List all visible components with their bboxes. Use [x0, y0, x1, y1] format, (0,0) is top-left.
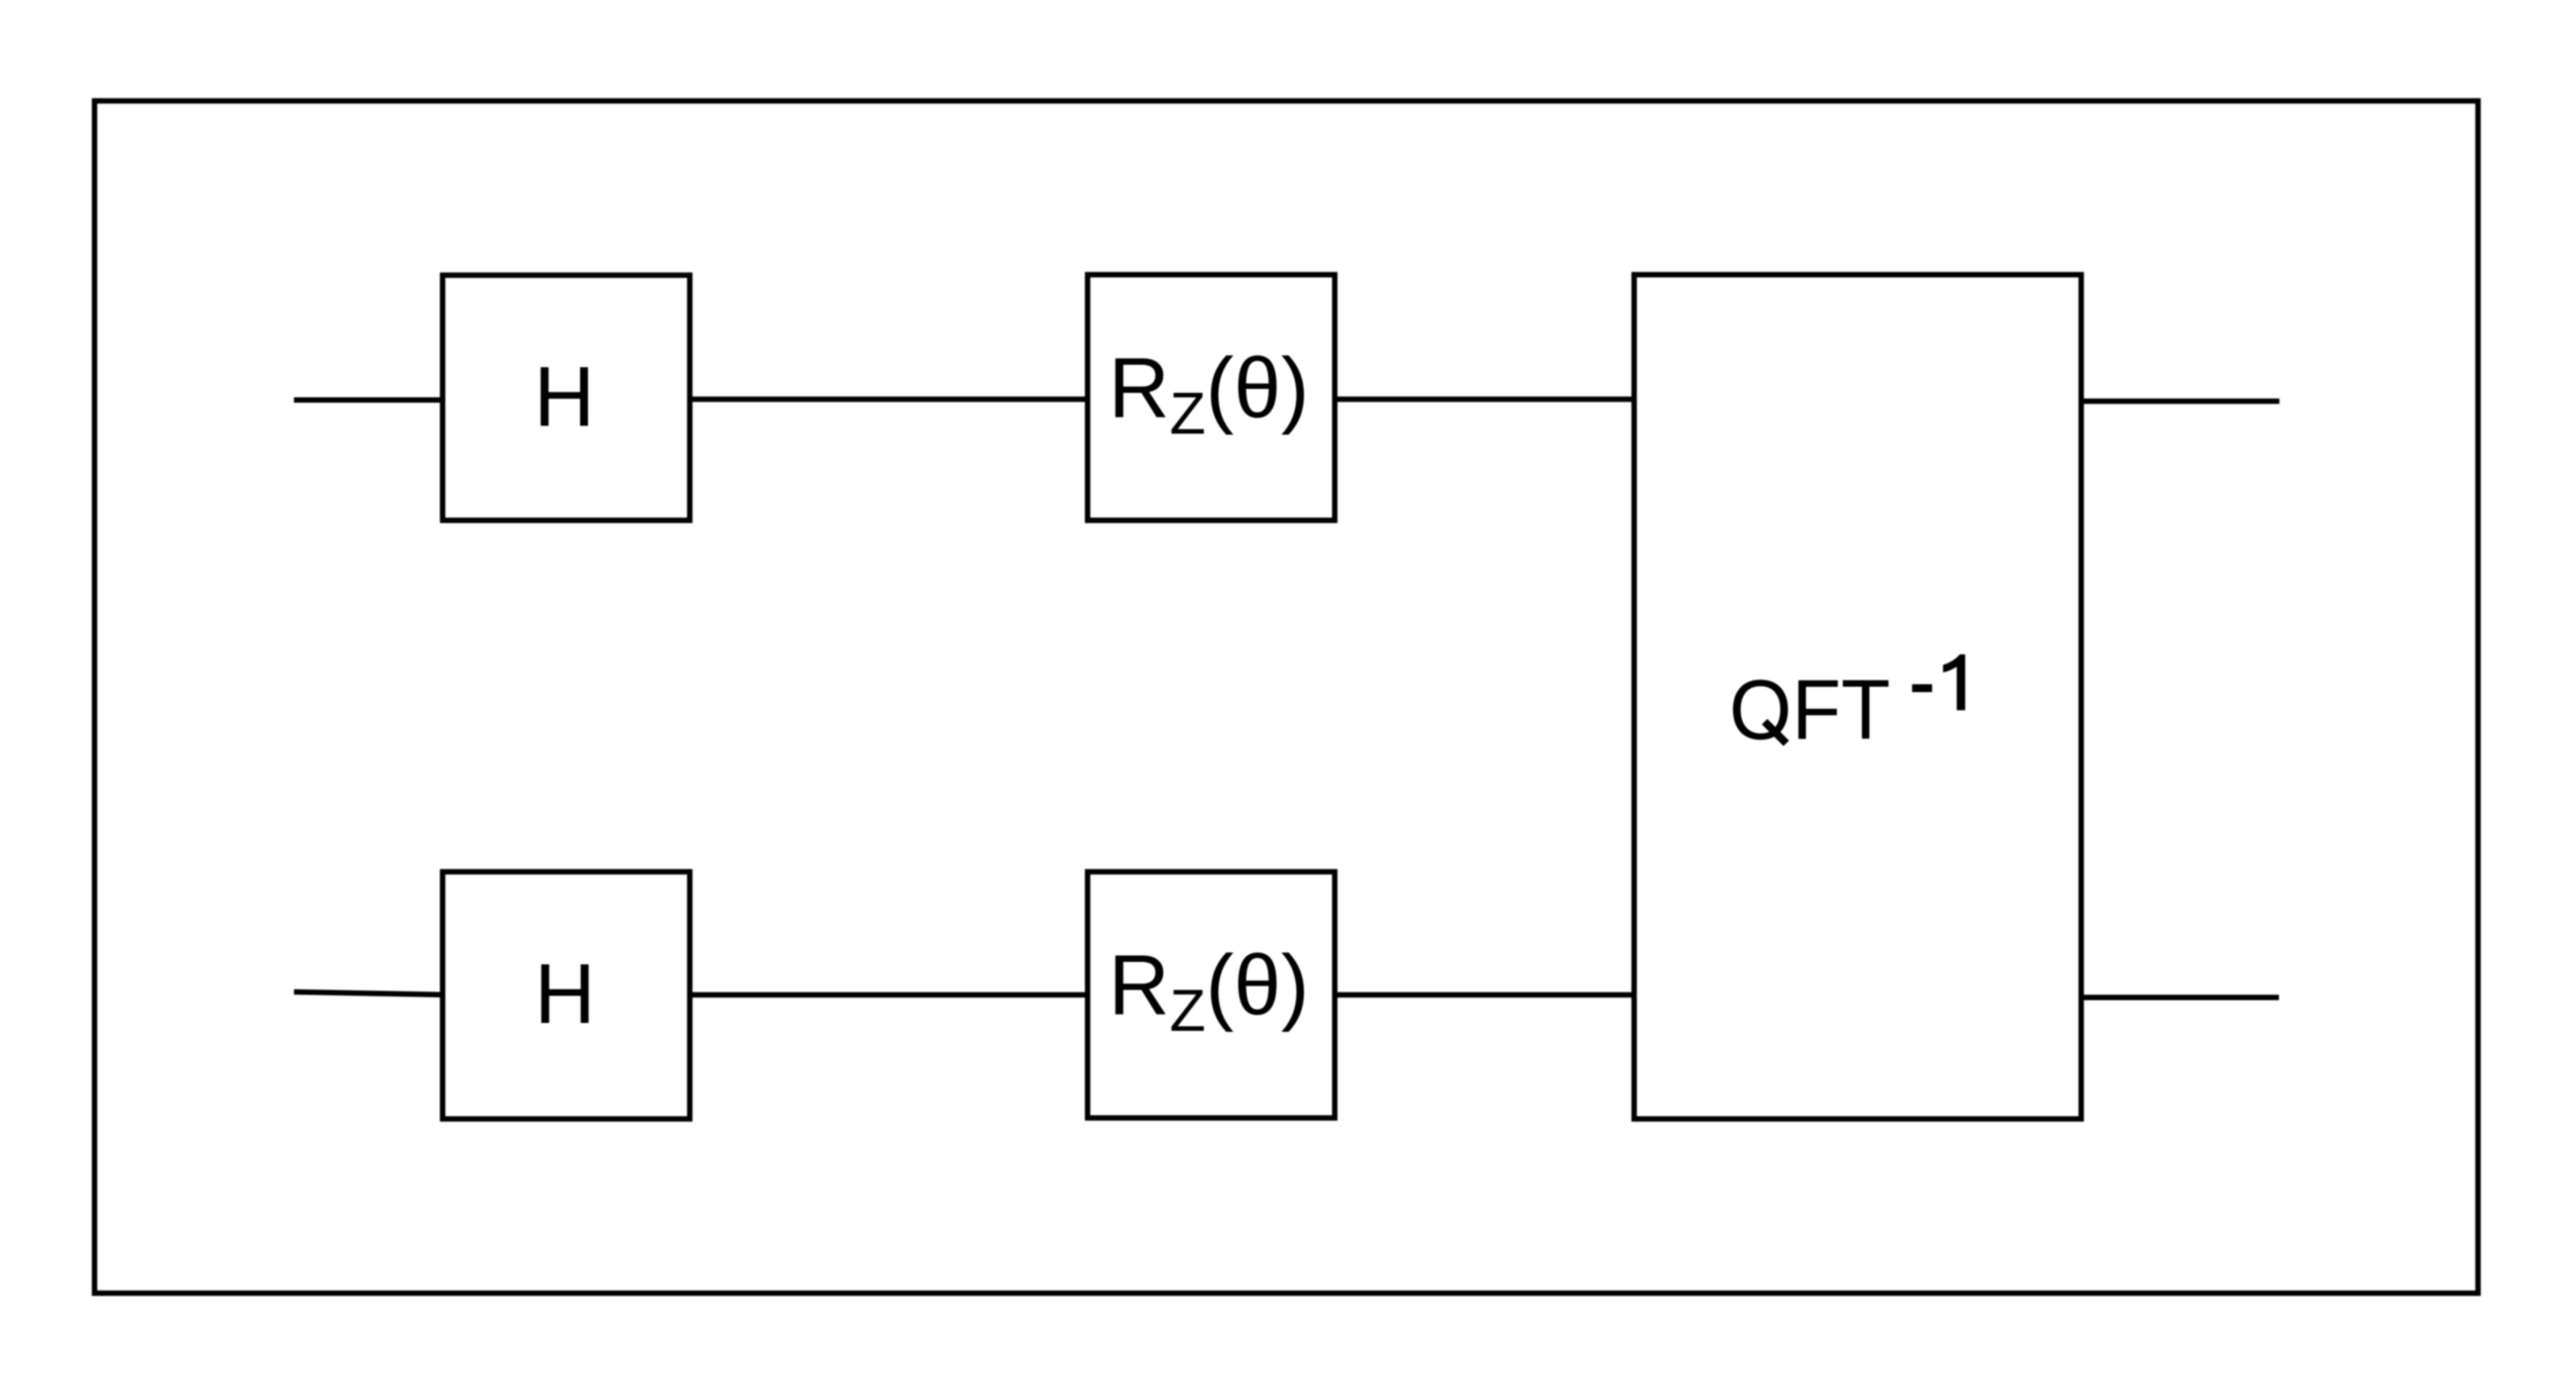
svg-text:RZ(θ): RZ(θ) [1109, 341, 1310, 446]
svg-text:OFT: OFT [1729, 663, 1891, 757]
svg-text:H: H [534, 350, 595, 445]
svg-text:RZ(θ): RZ(θ) [1109, 938, 1310, 1044]
svg-text:H: H [535, 947, 596, 1042]
